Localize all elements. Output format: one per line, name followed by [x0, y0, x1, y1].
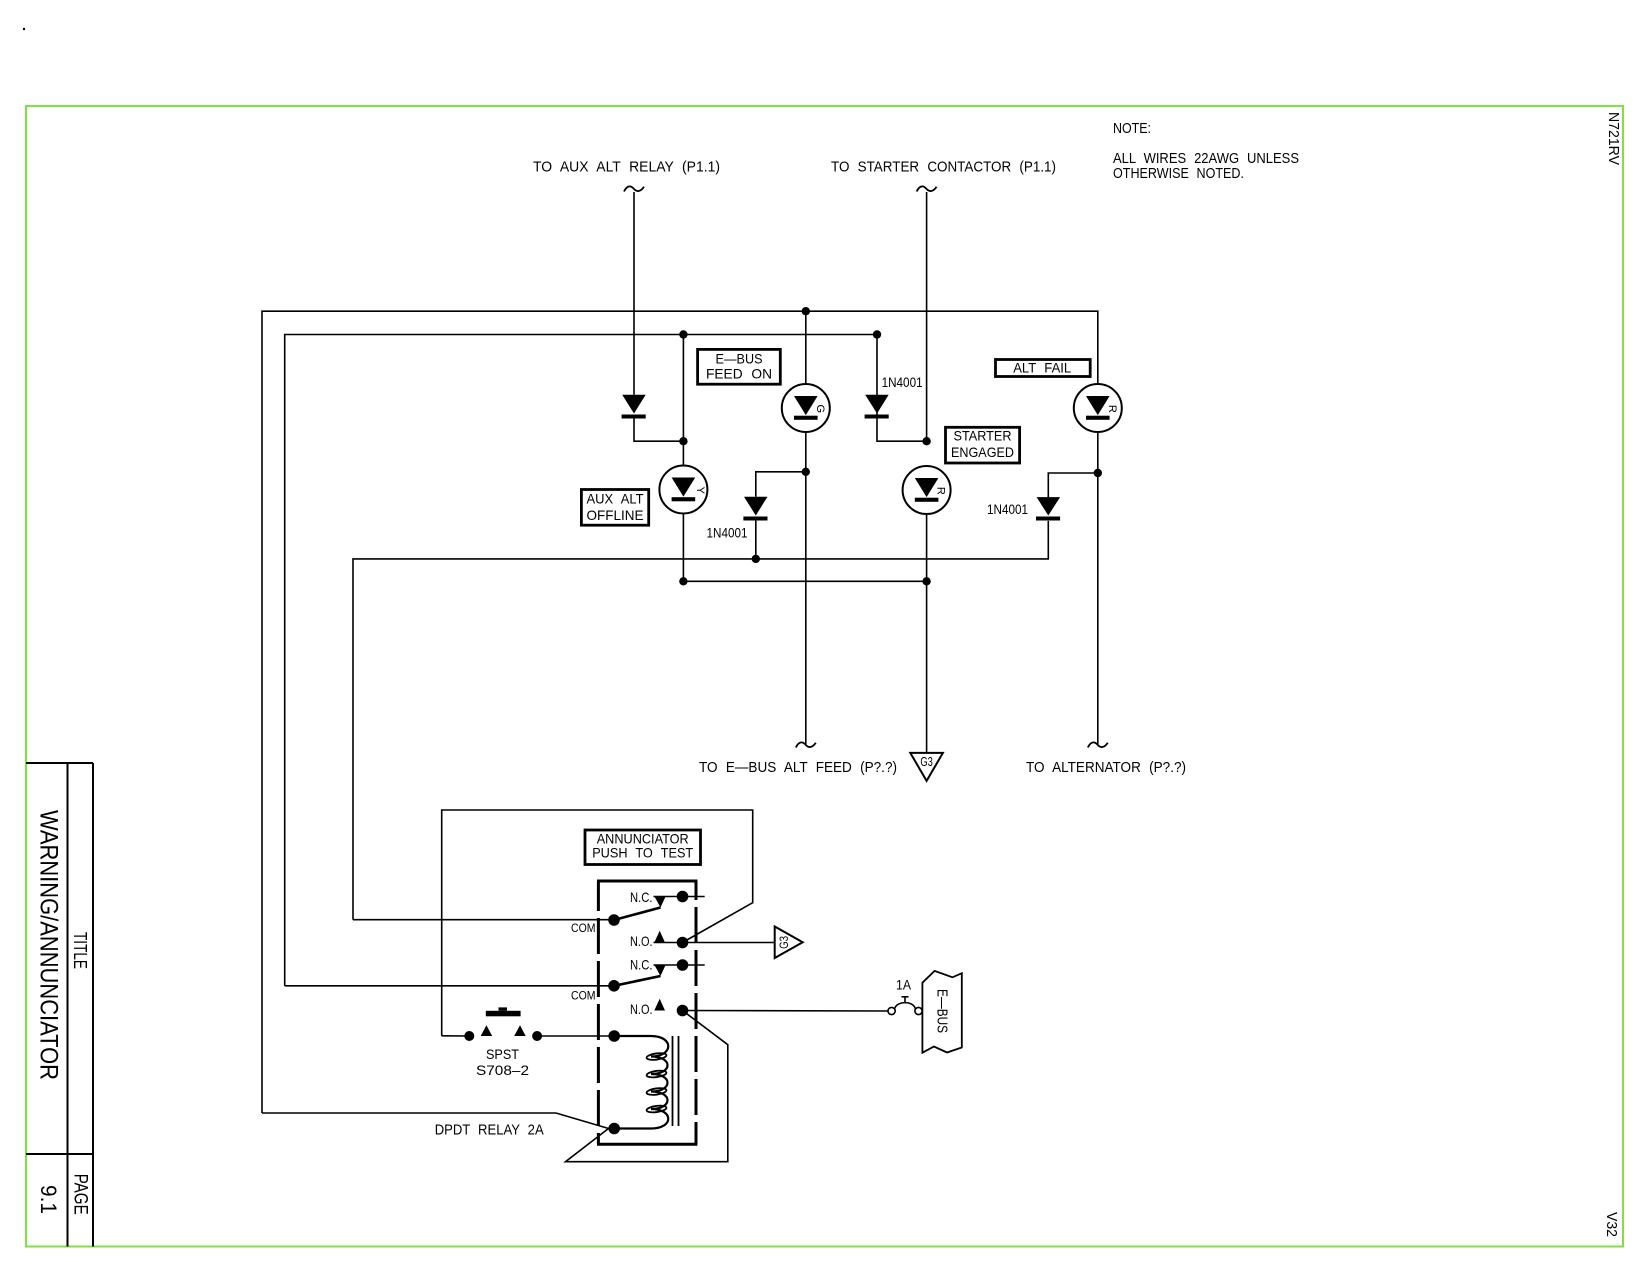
ground symbol G3 (starter) — [910, 753, 943, 781]
svg-text:1A: 1A — [896, 978, 912, 993]
relay contact 2 lever — [614, 965, 666, 986]
off-page squiggle E-BUS ALT FEED — [796, 742, 816, 747]
svg-text:ANNUNCIATOR: ANNUNCIATOR — [597, 832, 689, 847]
wire node G cathode rail — [756, 472, 806, 497]
wire NO1 to ground flag G3 — [683, 942, 775, 944]
svg-text:N.O.: N.O. — [630, 934, 653, 949]
node LED Y / rail E — [679, 577, 687, 585]
svg-text:Y: Y — [694, 487, 706, 495]
label box E-BUS FEED ON — [698, 349, 781, 384]
node rail B / LED Y — [679, 330, 687, 338]
diode D2 1N4001 — [743, 497, 767, 521]
node LED G cathode — [802, 468, 810, 476]
relay contact 2 N.C. terminal — [630, 957, 705, 972]
relay contact 1 N.O. terminal — [630, 931, 688, 949]
node diode DA / LED Y — [679, 437, 687, 445]
wire LED G anode — [805, 311, 807, 384]
wire LED G cathode to E-BUS ALT FEED — [805, 432, 807, 745]
off-page squiggle STARTER CONTACTOR — [917, 186, 937, 191]
svg-text:COM: COM — [571, 923, 596, 935]
svg-text:ALT FAIL: ALT FAIL — [1013, 361, 1071, 376]
relay coil — [608, 1030, 668, 1134]
svg-text:NOTE:: NOTE: — [1113, 120, 1151, 137]
LED Y aux alt offline — [659, 466, 707, 514]
svg-text:R: R — [1106, 405, 1118, 413]
svg-text:1N4001: 1N4001 — [707, 526, 748, 541]
off-page squiggle ALTERNATOR — [1088, 742, 1108, 747]
svg-text:COM: COM — [571, 990, 596, 1002]
LED G e-bus feed on — [782, 384, 830, 432]
wire SPST to coil — [537, 1035, 614, 1037]
node diode D1 / starter — [922, 437, 930, 445]
wire alt fail LED cathode to alternator — [1097, 432, 1099, 745]
wire SPST rail left — [442, 1035, 470, 1037]
svg-text:9.1: 9.1 — [36, 1185, 61, 1214]
wire starter LED cathode down to ground — [926, 514, 928, 753]
svg-text:TITLE: TITLE — [70, 932, 90, 969]
wire diode D2 down to rail D — [755, 521, 757, 559]
svg-text:FEED ON: FEED ON — [706, 367, 772, 382]
svg-text:ENGAGED: ENGAGED — [951, 445, 1014, 460]
node alt fail cathode — [1094, 469, 1102, 477]
svg-text:DPDT RELAY 2A: DPDT RELAY 2A — [435, 1122, 544, 1139]
svg-text:N.C.: N.C. — [630, 890, 653, 905]
svg-text:G3: G3 — [920, 755, 933, 769]
diode D1 1N4001 — [865, 395, 889, 419]
node starter / rail E — [922, 577, 930, 585]
svg-text:WARNING/ANNUNCIATOR: WARNING/ANNUNCIATOR — [35, 810, 63, 1080]
svg-text:G: G — [814, 405, 826, 414]
wire node B1 down to LED Y — [682, 335, 684, 466]
node rail B / diode D1 — [873, 330, 881, 338]
wire test circuit top — [442, 810, 753, 1036]
wire COM1 feed — [353, 919, 614, 921]
label box ALT FAIL — [996, 360, 1091, 377]
svg-text:N.O.: N.O. — [630, 1002, 653, 1017]
svg-text:OTHERWISE NOTED.: OTHERWISE NOTED. — [1113, 165, 1244, 182]
junction dots — [679, 307, 1102, 586]
svg-text:SPST: SPST — [486, 1047, 520, 1062]
svg-text:AUX ALT: AUX ALT — [587, 491, 645, 506]
label box ANNUNCIATOR PUSH TO TEST — [585, 830, 701, 865]
label box AUX ALT OFFLINE — [581, 490, 648, 526]
wire diode D3 up to alt-fail node — [1048, 473, 1098, 497]
switch S708-2 SPST push to test — [464, 1007, 542, 1078]
svg-text:PAGE: PAGE — [70, 1174, 91, 1215]
wire aux-alt feed vertical — [633, 192, 635, 395]
relay contact 1 N.C. terminal — [630, 890, 705, 905]
relay contact 1 COM terminal — [571, 914, 620, 935]
svg-text:STARTER: STARTER — [954, 428, 1012, 443]
wire rail D — [353, 521, 1048, 920]
fuse 1A — [888, 978, 922, 1015]
relay contact 2 N.O. terminal — [630, 999, 688, 1017]
svg-text:PUSH TO TEST: PUSH TO TEST — [592, 846, 694, 861]
off-page squiggle AUX ALT RELAY — [624, 186, 644, 191]
relay contact 2 COM terminal — [571, 980, 620, 1002]
svg-text:1N4001: 1N4001 — [882, 375, 923, 390]
relay core bars — [673, 1036, 679, 1126]
node rail A / LED G — [802, 307, 810, 315]
svg-text:OFFLINE: OFFLINE — [587, 508, 644, 523]
title block — [26, 763, 93, 1247]
wire NO2 wraparound to coil — [566, 1011, 728, 1162]
svg-text:N721RV: N721RV — [1605, 112, 1621, 165]
LED R alt fail — [1074, 384, 1122, 432]
wire diode D1 to starter node — [877, 335, 927, 442]
svg-text:V32: V32 — [1603, 1212, 1619, 1237]
node diode D2 / rail D — [752, 555, 760, 563]
svg-text:N.C.: N.C. — [630, 957, 653, 972]
svg-text:1N4001: 1N4001 — [987, 502, 1028, 517]
wire starter feed vertical — [926, 192, 928, 441]
svg-text:R: R — [935, 487, 947, 495]
svg-text:G3: G3 — [777, 936, 791, 949]
svg-text:E—BUS: E—BUS — [933, 989, 950, 1033]
svg-text:TO E—BUS ALT FEED (P?.?): TO E—BUS ALT FEED (P?.?) — [699, 759, 897, 776]
relay K1 dashed enclosure — [597, 881, 697, 1144]
svg-text:E—BUS: E—BUS — [716, 352, 763, 367]
diode DA (unlabeled) — [622, 395, 646, 419]
wire rail E ground link — [683, 580, 926, 582]
wire coil bottom feed — [262, 1113, 614, 1129]
LED R starter engaged — [903, 466, 951, 514]
note text — [1113, 120, 1299, 182]
svg-text:TO ALTERNATOR (P?.?): TO ALTERNATOR (P?.?) — [1026, 759, 1186, 776]
svg-text:TO STARTER CONTACTOR (P1.1): TO STARTER CONTACTOR (P1.1) — [831, 159, 1056, 176]
label box STARTER ENGAGED — [946, 427, 1020, 463]
wire COM2 feed — [285, 985, 614, 987]
svg-text:TO AUX ALT RELAY (P1.1): TO AUX ALT RELAY (P1.1) — [533, 159, 720, 176]
wire rail A top — [262, 311, 1098, 1113]
ground flag G3 (N.O.1) — [775, 927, 803, 959]
svg-text:S708–2: S708–2 — [476, 1063, 529, 1078]
wire rail B — [285, 335, 877, 986]
wire diode DA to node — [634, 419, 683, 442]
bus flag E-BUS — [922, 971, 961, 1053]
wire NO2 to fuse — [683, 1010, 889, 1013]
wire LED Y cathode down — [682, 514, 684, 582]
relay contact 1 lever — [614, 896, 666, 920]
diode D3 1N4001 — [1036, 497, 1060, 520]
